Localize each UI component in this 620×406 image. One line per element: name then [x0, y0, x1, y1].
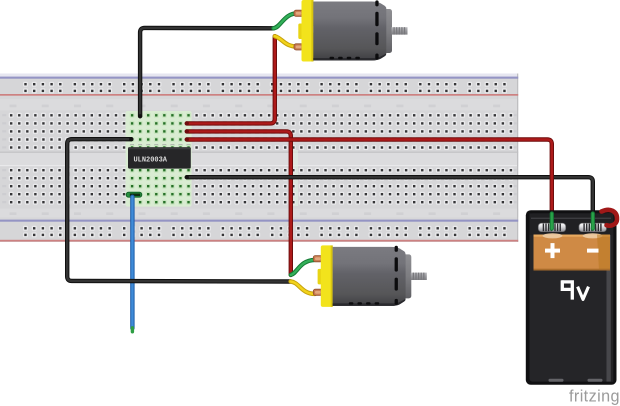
wire: black jumper IC row (bottom) to battery minus — [187, 177, 593, 214]
breadboard top blue rail line — [0, 77, 518, 79]
wire: green lead of bottom motor M2 — [291, 260, 315, 275]
motor M1 top — [294, 0, 408, 62]
motor M2 bottom — [313, 245, 427, 307]
IC U1 pins — [130, 145, 190, 172]
svg-text:ULN2003A: ULN2003A — [134, 156, 168, 164]
wire end caps — [185, 121, 189, 125]
breadboard holes — [9, 82, 514, 238]
battery BT1 9V — [526, 210, 617, 385]
blue wire green end tip — [131, 328, 134, 332]
wire: red jumper IC row2 to top motor yellow lead junction — [187, 36, 275, 123]
battery orange label band — [534, 235, 611, 271]
green jumper tick at IC pin — [126, 192, 142, 197]
breadboard body — [0, 74, 518, 243]
battery BT1 body shell — [526, 210, 617, 385]
green highlighted region around IC — [126, 111, 192, 207]
svg-text:fritzing: fritzing — [569, 388, 620, 406]
column highlight near wire drop — [293, 150, 298, 206]
wire: black jumper from IC pin row to top motor (left vertical + top horizontal) — [140, 28, 273, 116]
green tip of black wire at battery minus — [591, 214, 595, 229]
breadboard bottom red rail line — [0, 240, 518, 242]
breadboard bottom blue rail line — [0, 220, 518, 222]
blue wire hanging below board — [130, 197, 134, 328]
wire: black jumper from IC left to bottom motor (long U path) — [67, 139, 290, 281]
battery red pigtail hook — [602, 210, 618, 226]
green tip of red wire at battery plus — [550, 214, 554, 229]
breadboard top red rail line — [0, 94, 518, 96]
IC U1 label — [134, 156, 168, 164]
wire: yellow lead of top motor M1 — [275, 36, 298, 46]
battery terminals (plus left, minus right) — [538, 223, 606, 231]
battery bottom feet — [549, 379, 564, 382]
battery plus and minus symbols — [545, 243, 599, 258]
wire: green lead of top motor M1 — [273, 13, 298, 28]
fritzing watermark — [569, 388, 620, 406]
battery 9v label — [562, 280, 573, 299]
wire: yellow lead of bottom motor M2 — [291, 282, 315, 294]
faint board labels — [10, 105, 17, 108]
IC U1 ULN2003A body — [128, 147, 191, 168]
wire: red jumper IC row3 down to bottom motor green lead — [187, 131, 291, 275]
wire: red jumper IC row4 to battery plus — [187, 140, 552, 215]
